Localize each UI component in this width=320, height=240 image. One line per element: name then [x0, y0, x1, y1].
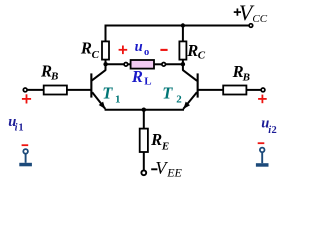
svg-text:EE: EE [166, 166, 182, 180]
svg-text:R: R [131, 67, 143, 86]
svg-text:B: B [50, 70, 58, 82]
svg-text:u: u [135, 39, 143, 55]
svg-text:T: T [102, 83, 113, 102]
svg-text:CC: CC [252, 13, 267, 25]
svg-text:i: i [15, 122, 18, 133]
svg-text:1: 1 [18, 122, 23, 133]
svg-text:L: L [144, 76, 151, 88]
svg-text:B: B [242, 71, 250, 83]
svg-text:R: R [186, 41, 198, 60]
svg-text:C: C [198, 49, 206, 61]
svg-text:C: C [92, 49, 100, 61]
svg-text:R: R [150, 130, 162, 149]
svg-text:1: 1 [115, 94, 121, 106]
svg-text:o: o [144, 47, 149, 58]
svg-text:2: 2 [272, 125, 277, 136]
svg-text:R: R [80, 39, 92, 58]
svg-text:E: E [161, 140, 169, 152]
svg-text:T: T [162, 83, 173, 102]
svg-text:2: 2 [176, 94, 182, 106]
